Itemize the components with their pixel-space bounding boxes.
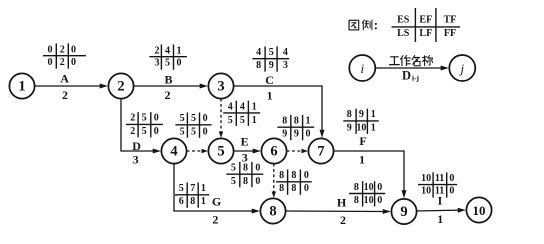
svg-text:9: 9 [359, 109, 364, 120]
svg-text:2: 2 [117, 79, 124, 95]
svg-text:4: 4 [240, 101, 245, 112]
svg-text:8: 8 [256, 60, 261, 71]
svg-text:2: 2 [62, 88, 68, 102]
svg-text:3: 3 [133, 152, 139, 166]
svg-text:0: 0 [306, 129, 311, 140]
svg-text:TF: TF [444, 14, 457, 25]
svg-text:LS: LS [397, 28, 410, 39]
svg-text:6: 6 [270, 144, 277, 160]
svg-text:1: 1 [437, 212, 443, 226]
svg-text:5: 5 [228, 115, 233, 126]
svg-text:5: 5 [142, 126, 147, 137]
svg-text:1: 1 [201, 196, 206, 207]
svg-text:8: 8 [282, 116, 287, 127]
svg-text:1: 1 [201, 183, 206, 194]
svg-text:A: A [60, 72, 69, 86]
svg-text:G: G [212, 195, 221, 209]
svg-text:E: E [241, 134, 249, 148]
svg-text:5: 5 [240, 115, 245, 126]
svg-text:1: 1 [371, 109, 376, 120]
svg-text:5: 5 [165, 58, 170, 69]
svg-text:1: 1 [252, 101, 257, 112]
svg-text:3: 3 [155, 58, 160, 69]
svg-text:0: 0 [177, 58, 182, 69]
svg-text:4: 4 [256, 47, 261, 58]
svg-text:0: 0 [203, 113, 208, 124]
svg-text:9: 9 [282, 129, 287, 140]
svg-text:5: 5 [191, 113, 196, 124]
svg-text:8: 8 [291, 170, 296, 181]
svg-text:D: D [132, 139, 141, 153]
svg-text:0: 0 [48, 45, 53, 56]
svg-text:9: 9 [400, 204, 407, 220]
svg-text:0: 0 [304, 170, 309, 181]
svg-text:H: H [337, 195, 347, 209]
svg-text:5: 5 [180, 113, 185, 124]
svg-text:1: 1 [267, 88, 273, 102]
svg-text:LF: LF [419, 28, 432, 39]
svg-text:0: 0 [48, 57, 53, 68]
svg-text:0: 0 [304, 183, 309, 194]
svg-text:D: D [402, 68, 411, 82]
svg-text:8: 8 [190, 196, 195, 207]
svg-text:0: 0 [71, 45, 76, 56]
svg-text:11: 11 [435, 173, 444, 184]
svg-text:0: 0 [255, 176, 260, 187]
svg-text:8: 8 [354, 195, 359, 206]
svg-text:8: 8 [294, 116, 299, 127]
svg-text:10: 10 [473, 203, 486, 218]
svg-text:i-j: i-j [412, 74, 420, 83]
svg-text:i: i [360, 61, 364, 76]
svg-text:3: 3 [283, 60, 288, 71]
svg-text:0: 0 [71, 57, 76, 68]
svg-text:4: 4 [283, 47, 288, 58]
svg-text:5: 5 [180, 126, 185, 137]
svg-text:8: 8 [243, 176, 248, 187]
svg-text:4: 4 [170, 144, 177, 160]
svg-text:10: 10 [421, 173, 431, 184]
svg-text:0: 0 [377, 195, 382, 206]
svg-text:8: 8 [354, 182, 359, 193]
svg-text:EF: EF [419, 14, 432, 25]
svg-text:0: 0 [449, 186, 454, 197]
svg-text:4: 4 [165, 45, 170, 56]
svg-text:2: 2 [165, 88, 171, 102]
svg-text:8: 8 [279, 170, 284, 181]
svg-text:10: 10 [364, 195, 374, 206]
svg-text:1: 1 [359, 152, 365, 166]
svg-text:2: 2 [155, 45, 160, 56]
svg-text:2: 2 [212, 213, 218, 227]
svg-text:0: 0 [449, 173, 454, 184]
svg-text:10: 10 [421, 186, 431, 197]
svg-text:3: 3 [242, 151, 248, 165]
svg-text:C: C [265, 73, 274, 87]
svg-text:I: I [438, 194, 443, 208]
svg-text:5: 5 [179, 183, 184, 194]
svg-text:ES: ES [397, 14, 410, 25]
svg-text:3: 3 [217, 79, 224, 95]
svg-text:2: 2 [340, 213, 346, 227]
svg-text:2: 2 [130, 113, 135, 124]
svg-text:1: 1 [177, 45, 182, 56]
svg-text:2: 2 [60, 57, 65, 68]
svg-text:F: F [359, 134, 366, 148]
svg-text:0: 0 [203, 126, 208, 137]
svg-text:9: 9 [294, 129, 299, 140]
svg-text:B: B [164, 72, 172, 86]
svg-text:9: 9 [269, 60, 274, 71]
svg-text:2: 2 [130, 126, 135, 137]
svg-text:0: 0 [154, 126, 159, 137]
svg-text:2: 2 [60, 45, 65, 56]
svg-text:10: 10 [364, 182, 374, 193]
svg-text:7: 7 [190, 183, 195, 194]
svg-text:8: 8 [269, 204, 276, 220]
svg-text:5: 5 [269, 47, 274, 58]
svg-text:1: 1 [371, 123, 376, 134]
svg-text:0: 0 [154, 113, 159, 124]
svg-text:9: 9 [347, 123, 352, 134]
svg-text:6: 6 [179, 196, 184, 207]
svg-text:FF: FF [444, 28, 456, 39]
svg-text:10: 10 [356, 123, 366, 134]
svg-text:5: 5 [217, 144, 224, 160]
svg-text:0: 0 [255, 163, 260, 174]
svg-text:8: 8 [291, 183, 296, 194]
svg-text:5: 5 [142, 113, 147, 124]
svg-text:1: 1 [306, 116, 311, 127]
svg-text:0: 0 [377, 182, 382, 193]
svg-text:7: 7 [317, 144, 324, 160]
svg-text:8: 8 [279, 183, 284, 194]
svg-text:5: 5 [191, 126, 196, 137]
svg-text:5: 5 [231, 163, 236, 174]
svg-text:8: 8 [347, 109, 352, 120]
svg-text:5: 5 [231, 176, 236, 187]
svg-text:1: 1 [18, 79, 25, 95]
svg-text:1: 1 [252, 115, 257, 126]
svg-text:4: 4 [228, 101, 233, 112]
